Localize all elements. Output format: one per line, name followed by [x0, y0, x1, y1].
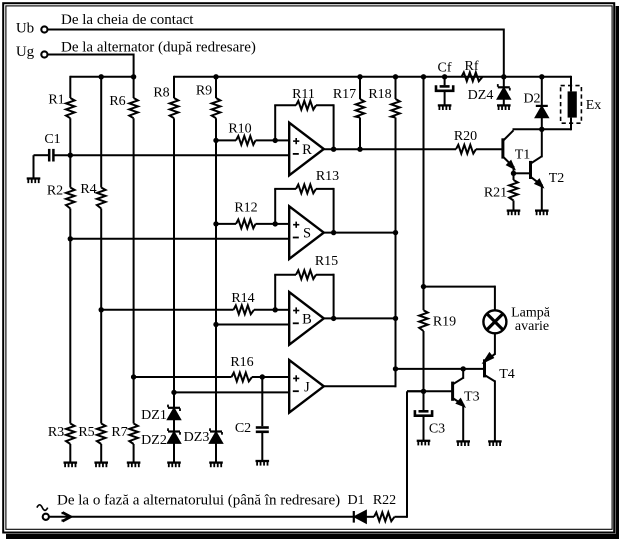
junction R out / R11 [331, 147, 336, 152]
wire column B-out to J-out [395, 318, 397, 387]
svg-text:Ug: Ug [16, 44, 35, 60]
ground DZ4 [497, 105, 511, 110]
wire lamp to T4 emitter [494, 333, 496, 355]
diode D2 [523, 77, 547, 130]
svg-text:T3: T3 [464, 390, 480, 405]
resistor R22 [373, 493, 407, 521]
svg-text:R15: R15 [315, 254, 338, 269]
svg-text:R10: R10 [228, 121, 251, 136]
resistor R5 [78, 310, 105, 463]
junction rail / R19 column [421, 74, 426, 79]
svg-text:DZ1: DZ1 [141, 408, 167, 423]
resistor R9 [196, 77, 220, 141]
resistor R18 [368, 77, 399, 233]
svg-text:D2: D2 [523, 92, 540, 107]
resistor R10 [216, 121, 275, 144]
svg-text:R7: R7 [111, 425, 127, 440]
junction R8 column / J- line [171, 390, 176, 395]
svg-text:R19: R19 [433, 314, 456, 329]
resistor R14 [231, 291, 275, 314]
resistor R16 [230, 355, 262, 382]
feedback loop R13 [274, 169, 339, 233]
wire bottom input line [49, 516, 353, 518]
op-amp B output wire [324, 317, 396, 319]
junction R9 / R10 line [213, 138, 218, 143]
svg-text:R: R [302, 142, 312, 158]
junction rail / R18 [393, 74, 398, 79]
wire B- line [216, 324, 289, 326]
junction Ug rail / R4 column [99, 74, 104, 79]
resistor R4 [80, 77, 105, 310]
wire R14 to B+ input [275, 309, 289, 311]
wire B+ line from R4 [101, 309, 233, 311]
svg-text:C3: C3 [429, 422, 445, 437]
ground DZ3 [209, 463, 223, 468]
wire R9 column middle [215, 140, 217, 224]
junction R10 / R feedback [273, 138, 278, 143]
junction R16 / C2 / J+ [260, 374, 265, 379]
zener DZ2 [141, 428, 180, 462]
op-amp R [289, 123, 324, 176]
terminal AC phase input [37, 505, 49, 520]
resistor R1 [48, 76, 74, 155]
junction T3 collector / T4 base line [461, 366, 466, 371]
junction B out / R15 [331, 316, 336, 321]
junction rail / Cf [442, 74, 447, 79]
resistor R17 [333, 77, 364, 149]
junction R14 / B feedback [273, 307, 278, 312]
terminal Ug [16, 44, 48, 60]
junction R2 bottom / S- line [68, 236, 73, 241]
ground R7 [127, 463, 141, 468]
ground C3 [417, 441, 431, 446]
svg-text:C2: C2 [235, 421, 251, 436]
svg-text:R22: R22 [373, 493, 396, 508]
transistor T4 (pnp) [484, 354, 515, 442]
svg-text:T1: T1 [515, 147, 531, 162]
svg-text:Ub: Ub [16, 21, 34, 37]
op-amp S [289, 206, 324, 259]
resistor R7 [111, 377, 138, 463]
op-amp B [289, 292, 324, 345]
svg-text:R13: R13 [316, 169, 339, 184]
wire Ex bottom to collector node [514, 128, 572, 130]
wire R18 column S-out to B-out [395, 233, 397, 319]
wire Ug rail left segment [70, 76, 133, 78]
label: De la alternator (dupa redresare) [61, 39, 256, 55]
capacitor C1 [34, 132, 61, 179]
wire R10 to R+ input [275, 139, 289, 141]
svg-text:R8: R8 [153, 86, 169, 101]
resistor R8 [153, 76, 178, 393]
resistor R12 [216, 201, 275, 229]
junction R9 column / B- line [213, 322, 218, 327]
svg-text:D1: D1 [347, 493, 364, 508]
capacitor Cf [436, 61, 453, 106]
wire R12 to S+ input [275, 223, 289, 225]
wire T2 base [514, 172, 530, 174]
transistor T3 [452, 369, 480, 442]
zener DZ3 [184, 325, 222, 463]
zener DZ1 [141, 392, 180, 431]
wire input riser to T3 base [407, 391, 424, 518]
junction R4 bottom / B+ line [99, 307, 104, 312]
svg-text:R3: R3 [48, 425, 64, 440]
junction R9 column / R12 line [213, 221, 218, 226]
junction rail / DZ4-Ub [501, 74, 506, 79]
ground R21 [507, 211, 521, 216]
svg-text:R14: R14 [231, 291, 254, 306]
svg-text:DZ2: DZ2 [141, 433, 167, 448]
svg-text:R18: R18 [368, 87, 391, 102]
junction T3 base node [421, 389, 426, 394]
wire to J+ input [262, 376, 289, 378]
junction R out / R17 [357, 147, 362, 152]
transistor T2 [530, 129, 564, 210]
ground R3 [64, 463, 78, 468]
resistor R21 [484, 173, 518, 210]
svg-text:De la cheia de contact: De la cheia de contact [61, 12, 194, 28]
ground T4 [488, 441, 502, 446]
resistor Rf [462, 59, 483, 81]
transistor T1 [502, 129, 530, 173]
svg-text:R16: R16 [230, 355, 253, 370]
label: De la o faza a alternatorului [57, 493, 340, 509]
op-amp J output wire [324, 385, 396, 387]
svg-text:T2: T2 [549, 171, 565, 186]
resistor R3 [48, 239, 75, 463]
ground R5 [94, 463, 108, 468]
wire S- line [70, 238, 289, 240]
svg-text:R5: R5 [78, 425, 94, 440]
wire Ug down to left rail [48, 54, 134, 77]
junction R19 column / lamp line [421, 284, 426, 289]
wire R19 column from rail [423, 77, 425, 287]
ground C2 [256, 461, 270, 466]
svg-text:R21: R21 [484, 186, 507, 201]
junction S out / R13 [331, 230, 336, 235]
feedback loop R11 [274, 87, 333, 149]
wire J- line [174, 391, 289, 393]
wire Ub main rail [174, 76, 571, 78]
junction R12 / S feedback [273, 221, 278, 226]
svg-text:B: B [302, 311, 312, 327]
capacitor C2 [235, 377, 269, 461]
junction rail / R9 column [213, 74, 218, 79]
junction T1 emitter / R21 / T2 base [511, 171, 516, 176]
feedback loop R15 [274, 254, 338, 319]
junction R18 column / B out [393, 316, 398, 321]
zener DZ4 [468, 77, 510, 106]
junction R18 column / S out [393, 230, 398, 235]
svg-text:De la alternator (după redresa: De la alternator (după redresare) [61, 39, 256, 55]
op-amp S output wire [324, 232, 396, 234]
svg-text:S: S [303, 226, 311, 242]
svg-text:T4: T4 [499, 367, 515, 382]
svg-text:Rf: Rf [465, 59, 479, 74]
svg-text:R9: R9 [196, 84, 212, 99]
junction rail / D2 [539, 74, 544, 79]
wire T4 base line [396, 368, 485, 370]
ground Cf [438, 105, 452, 110]
resistor R20 [454, 129, 502, 153]
terminal Ub [16, 21, 48, 37]
ground T2 [535, 211, 549, 216]
op-amp R output wire [324, 148, 456, 150]
resistor R2 [47, 155, 75, 239]
svg-text:R20: R20 [454, 129, 477, 144]
wire rail to Ex top [570, 76, 572, 78]
svg-text:C1: C1 [44, 132, 60, 147]
arrow on input wire [63, 512, 71, 522]
junction D2 / collectors / Ex [539, 127, 544, 132]
svg-text:DZ4: DZ4 [468, 88, 494, 103]
excitation winding Ex [561, 76, 602, 131]
resistor R19 [419, 287, 456, 392]
svg-text:DZ3: DZ3 [184, 430, 210, 445]
junction R6 column / J+ line [131, 374, 136, 379]
capacitor C3 [415, 391, 445, 441]
junction column / T4 base line [393, 366, 398, 371]
label: De la cheia de contact [61, 12, 194, 28]
svg-text:R4: R4 [80, 182, 96, 197]
svg-text:avarie: avarie [515, 319, 549, 334]
svg-text:Ex: Ex [586, 98, 602, 113]
ground C1 [27, 179, 41, 184]
wire J+ line from R6 [134, 376, 232, 378]
svg-text:R2: R2 [47, 184, 63, 199]
op-amp J [289, 360, 324, 413]
wire R9 column lower [215, 224, 217, 325]
wire lamp feed [424, 286, 495, 311]
svg-text:R17: R17 [333, 87, 356, 102]
ground T3 [456, 441, 470, 446]
diode D1 [347, 493, 374, 522]
ground DZ2 [167, 463, 181, 468]
svg-text:R6: R6 [109, 94, 125, 109]
svg-text:De la o fază a alternatorului: De la o fază a alternatorului (până în r… [57, 493, 340, 509]
wire T3 base from input [407, 390, 452, 392]
svg-text:R11: R11 [292, 87, 315, 102]
svg-text:R12: R12 [234, 201, 257, 216]
svg-text:R1: R1 [48, 93, 64, 108]
svg-text:Cf: Cf [438, 61, 452, 76]
junction rail / R17 [357, 74, 362, 79]
resistor R6 [109, 77, 138, 377]
wire Ub to top-right corner [48, 29, 504, 77]
junction R1 bottom / C1 line [68, 153, 73, 158]
svg-text:J: J [304, 379, 310, 395]
lamp Lampa avarie [483, 306, 550, 334]
wire C1 to R- input [55, 154, 290, 156]
junction Ug rail / R6 column [131, 74, 136, 79]
